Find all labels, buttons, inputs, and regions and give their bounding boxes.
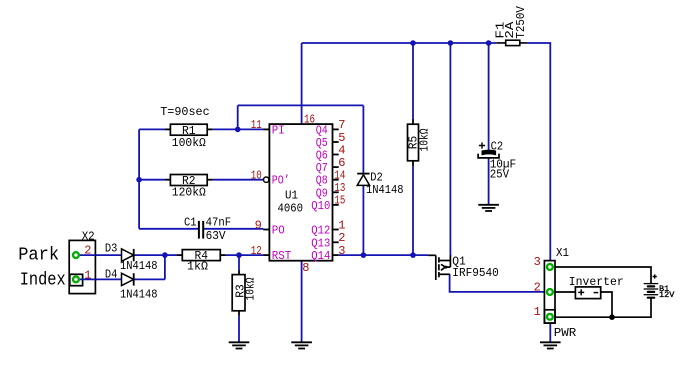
wire rail down to Q1 source — [449, 43, 451, 256]
resistor R4 — [177, 249, 226, 273]
svg-text:C1: C1 — [184, 215, 197, 229]
svg-text:1: 1 — [534, 305, 541, 319]
svg-text:100kΩ: 100kΩ — [172, 136, 206, 150]
svg-text:10kΩ: 10kΩ — [417, 129, 431, 152]
svg-text:15: 15 — [334, 194, 345, 208]
svg-text:4060: 4060 — [278, 201, 304, 215]
ground below IC pin 8 — [291, 342, 312, 348]
svg-text:Q14: Q14 — [311, 249, 330, 263]
wire R3 bottom to ground — [238, 316, 240, 343]
inverter box — [569, 275, 624, 299]
svg-text:10: 10 — [251, 169, 262, 183]
wire node to R4 left — [165, 254, 177, 256]
connector X1 — [534, 246, 577, 340]
wire X2 pin1 to D4 — [78, 278, 122, 280]
junction node D2 gate — [361, 252, 367, 258]
svg-text:16: 16 — [304, 113, 315, 127]
wire R2 left — [139, 179, 165, 181]
svg-text:Index: Index — [20, 270, 66, 290]
transistor Q1 IRF9540 — [428, 254, 499, 280]
svg-text:X2: X2 — [82, 229, 95, 243]
wire pin 8 down to ground — [301, 261, 303, 343]
svg-text:PI: PI — [272, 123, 285, 137]
svg-text:120kΩ: 120kΩ — [172, 186, 206, 200]
svg-text:25V: 25V — [490, 168, 510, 182]
svg-text:1N4148: 1N4148 — [120, 259, 158, 273]
ground below X1 — [540, 342, 561, 348]
wire C1 left — [139, 228, 198, 230]
svg-text:T250V: T250V — [514, 5, 528, 38]
junction node R5 gate — [410, 252, 416, 258]
junction node R2 left — [136, 177, 142, 183]
pin 10 inversion bubble — [264, 177, 269, 182]
junction node rail Q1 — [448, 40, 454, 46]
pin stubs U1 left — [263, 129, 269, 255]
junction node rail R5 — [410, 40, 416, 46]
ground below C2 — [478, 205, 499, 211]
svg-text:11: 11 — [251, 118, 262, 132]
wire R1 left — [139, 128, 165, 130]
wire R1 right to pin 11 — [213, 128, 264, 130]
resistor R5 — [406, 119, 431, 166]
pin numbers left side — [251, 118, 262, 258]
pin numbers right side — [334, 118, 345, 258]
svg-text:IRF9540: IRF9540 — [452, 266, 499, 280]
svg-text:PO: PO — [272, 224, 285, 238]
svg-text:U1: U1 — [285, 188, 298, 202]
svg-text:47nF: 47nF — [206, 215, 232, 229]
wire rail down to R5 — [412, 43, 414, 119]
wire rail down to C2 — [488, 43, 490, 151]
wire inverter to battery minus — [601, 292, 612, 317]
svg-text:1: 1 — [84, 268, 91, 282]
wire PI net up — [237, 105, 239, 129]
svg-text:D4: D4 — [105, 268, 118, 282]
wire X2 pin2 to D3 — [78, 254, 122, 256]
svg-text:10kΩ: 10kΩ — [243, 278, 257, 301]
wire C2 bottom to ground — [488, 158, 490, 205]
svg-text:T=90sec: T=90sec — [160, 105, 210, 119]
svg-text:8: 8 — [302, 261, 309, 275]
svg-text:2: 2 — [534, 280, 541, 294]
wire R5 bottom down to gate net — [412, 166, 414, 255]
junction node RST/R3 — [236, 252, 242, 258]
ground below R3 — [229, 342, 250, 348]
diode D4 1N4148 — [105, 268, 158, 302]
svg-text:X1: X1 — [556, 246, 569, 260]
diode D3 1N4148 — [105, 241, 158, 272]
junction node inverter minus — [609, 314, 615, 320]
wire D4 up to node — [164, 255, 166, 279]
svg-text:Park: Park — [18, 245, 59, 265]
pin names Q4-Q14 — [311, 123, 330, 263]
wire X1 pin 1 to ground — [549, 317, 551, 342]
svg-text:Q10: Q10 — [311, 199, 330, 213]
svg-text:63V: 63V — [206, 229, 227, 243]
svg-text:12V: 12V — [659, 290, 675, 300]
junction node PI — [235, 127, 241, 133]
capacitor C2 polarized — [478, 140, 516, 182]
wire top supply rail — [302, 42, 497, 44]
wire left vertical R1-R2-C1 — [138, 129, 140, 228]
wire C1 right to pin 9 — [203, 228, 263, 230]
junction node D3/D4 — [162, 252, 168, 258]
connector X2 — [69, 229, 95, 293]
wire D2 anode down — [362, 185, 364, 255]
svg-text:12: 12 — [251, 244, 262, 258]
pin stubs U1 right — [333, 129, 339, 255]
fuse F1 — [494, 5, 528, 45]
svg-text:PWR: PWR — [554, 326, 577, 340]
wire D3 cathode to node — [134, 254, 165, 256]
svg-text:D3: D3 — [105, 241, 118, 255]
capacitor C1 — [184, 215, 231, 243]
junction node rail C2 — [486, 40, 492, 46]
svg-text:1N4148: 1N4148 — [366, 183, 404, 197]
op-amp U1 4060 IC body — [269, 124, 332, 261]
wire Q1 drain to X1 pin 2 — [450, 274, 547, 292]
wire gate net Q14 to Q1 — [339, 254, 429, 256]
wire pin 16 up to rail — [301, 43, 303, 124]
wire PI net to D2 — [238, 104, 364, 106]
wire D4 cathode right — [134, 278, 165, 280]
diode D2 1N4148 — [357, 171, 403, 197]
wire fuse right to X1 pin 3 — [527, 43, 550, 264]
svg-text:9: 9 — [255, 218, 262, 232]
wire X1 pin3 to battery top — [555, 267, 651, 284]
svg-text:PO’: PO’ — [272, 174, 290, 188]
svg-text:3: 3 — [534, 255, 541, 269]
svg-text:2: 2 — [84, 244, 91, 258]
svg-text:C2: C2 — [491, 140, 504, 154]
svg-text:RST: RST — [272, 249, 292, 263]
wire R4 right to pin 12 — [226, 254, 264, 256]
svg-text:1kΩ: 1kΩ — [187, 260, 208, 274]
wire R2 right to pin 10 — [213, 179, 264, 181]
svg-text:1N4148: 1N4148 — [120, 288, 158, 302]
wire X1 pin2 to inverter — [555, 291, 576, 293]
resistor R3 — [232, 271, 257, 316]
wire D2 cathode down — [362, 105, 364, 173]
svg-text:3: 3 — [338, 244, 345, 258]
resistor R1 — [165, 124, 213, 150]
wire X1 pin1 to battery bottom — [555, 299, 651, 318]
battery B1 — [644, 274, 676, 300]
resistor R2 — [165, 174, 213, 200]
wire down to R3 — [238, 255, 240, 270]
